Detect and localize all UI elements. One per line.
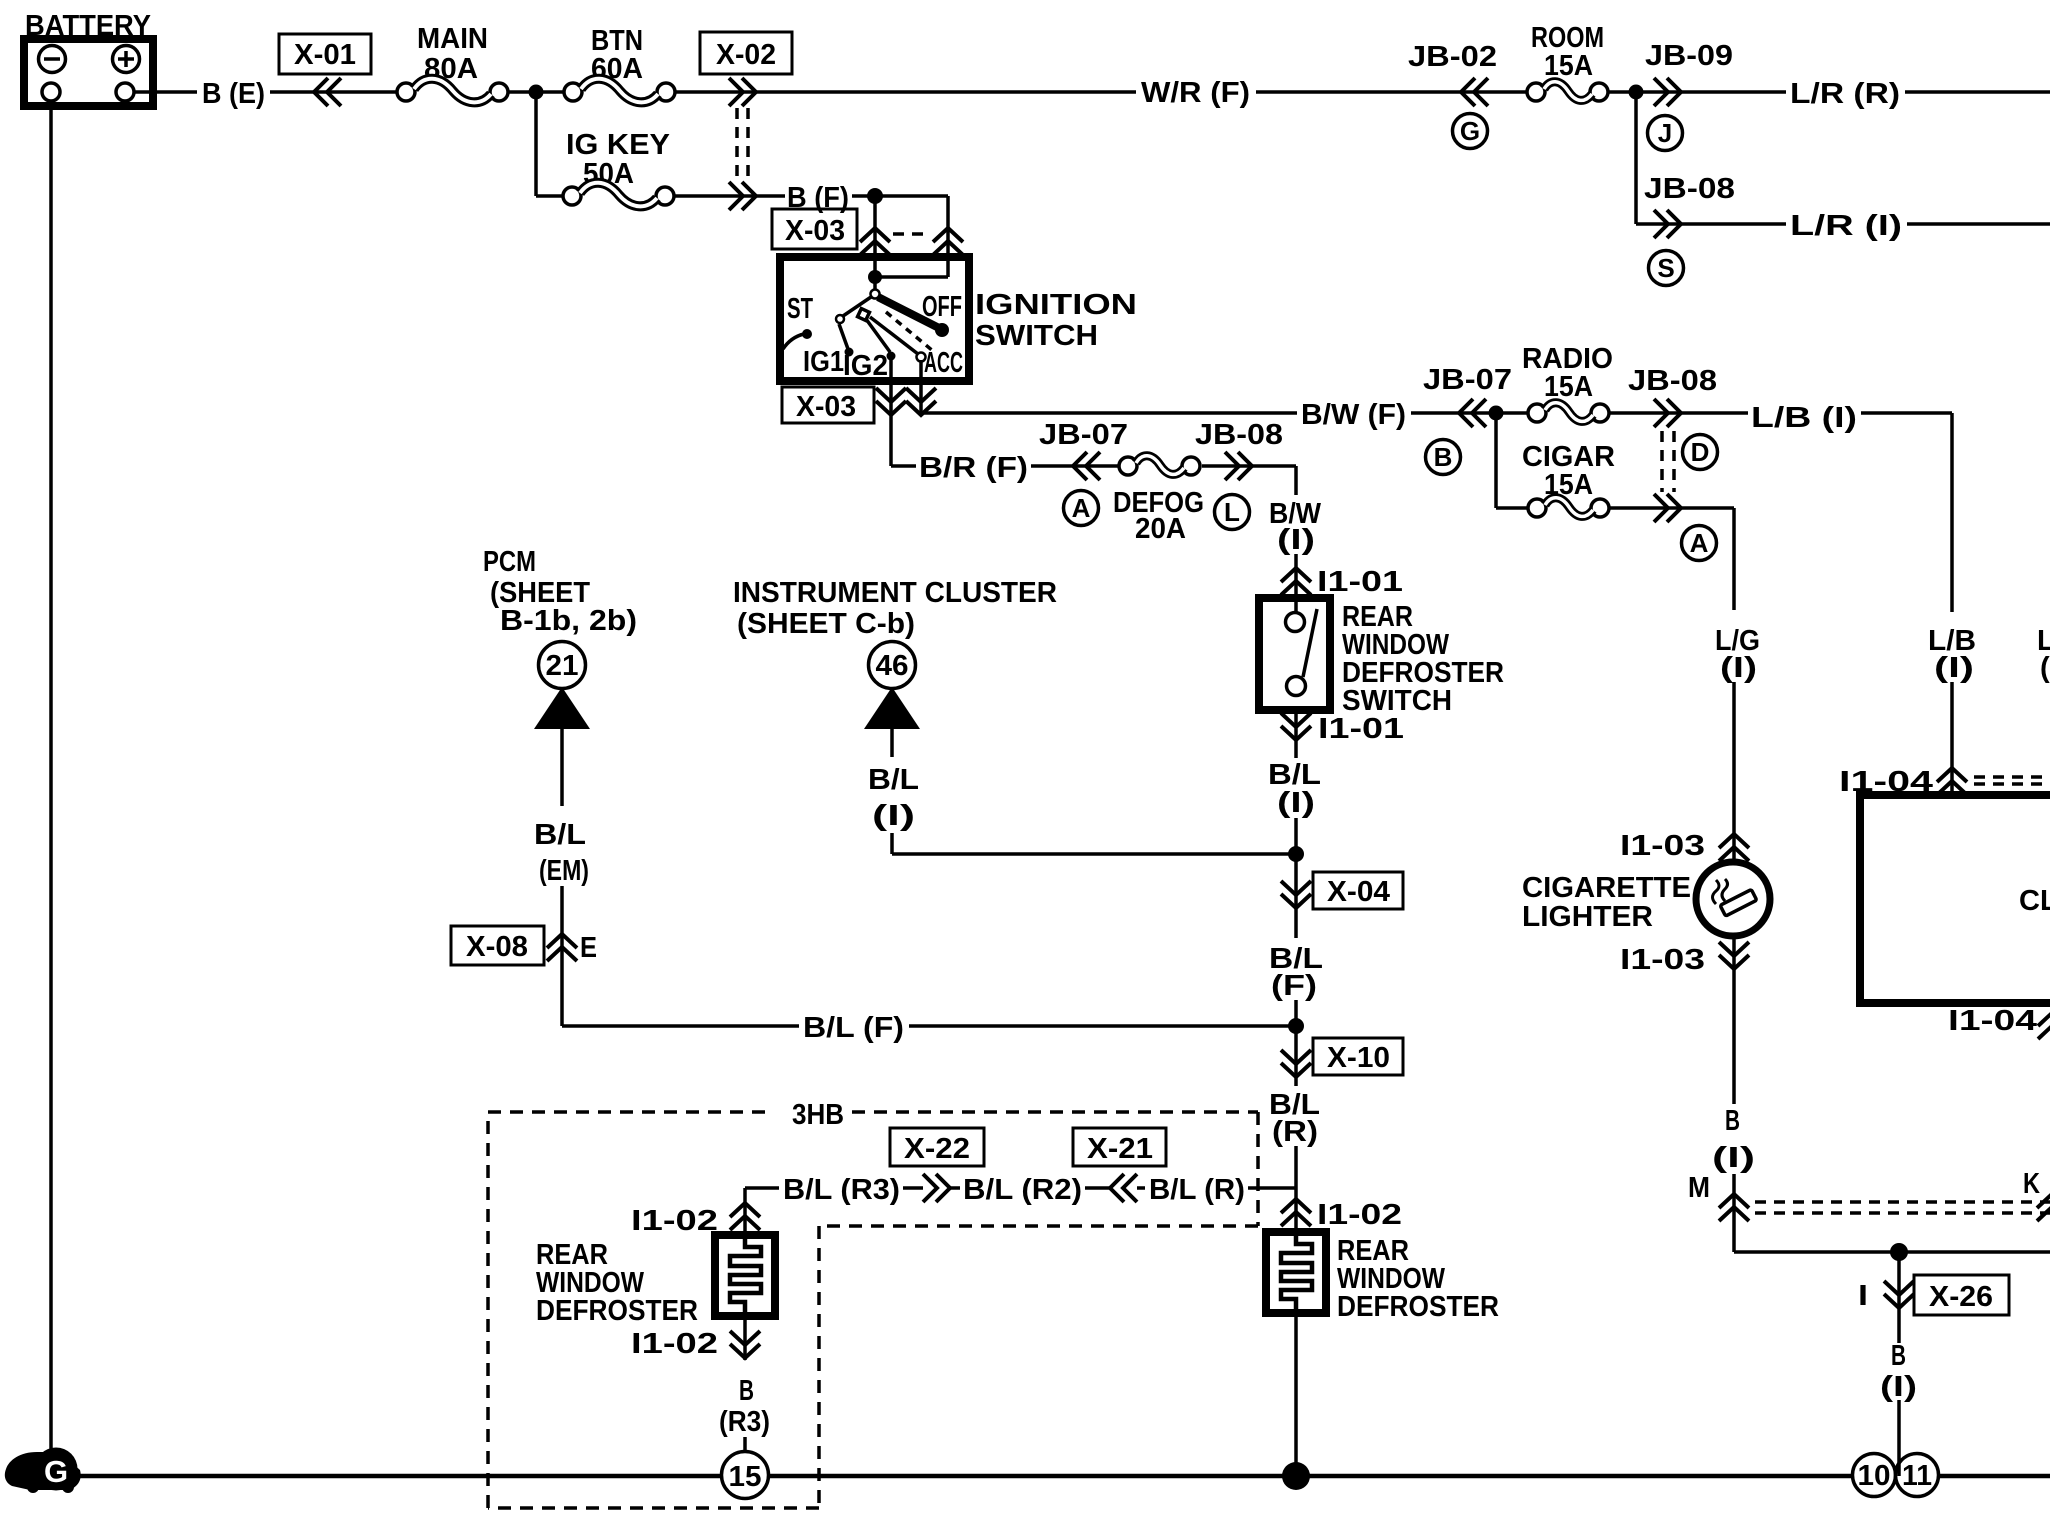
svg-text:I1-02: I1-02 (1317, 1199, 1402, 1231)
connector X-26 (1884, 1281, 1914, 1308)
svg-text:I1-01: I1-01 (1317, 566, 1403, 598)
node junction (1288, 846, 1304, 862)
ignition switch U1 (780, 257, 1137, 382)
svg-text:X-03: X-03 (785, 215, 845, 247)
svg-text:(I): (I) (1277, 524, 1315, 556)
connector I1-02 lower left (743, 1316, 747, 1360)
svg-text:IG KEY: IG KEY (566, 129, 670, 161)
svg-text:L: L (1224, 497, 1240, 527)
svg-text:A: A (1072, 493, 1091, 523)
svg-text:SWITCH: SWITCH (975, 320, 1098, 352)
svg-text:X-04: X-04 (1327, 876, 1390, 908)
connector I1-02 upper left (730, 1203, 760, 1230)
svg-text:X-01: X-01 (294, 39, 356, 71)
svg-text:J: J (1658, 118, 1672, 148)
svg-text:MAIN: MAIN (417, 23, 488, 55)
node junction (1629, 85, 1644, 100)
svg-text:K: K (2023, 1168, 2040, 1200)
svg-text:X-03: X-03 (796, 391, 856, 423)
svg-text:11: 11 (1902, 1460, 1932, 1492)
node 15 (722, 1452, 769, 1499)
svg-text:B: B (739, 1375, 754, 1407)
svg-text:10: 10 (1858, 1460, 1891, 1492)
svg-text:B-1b, 2b): B-1b, 2b) (500, 605, 637, 637)
svg-text:LIGHTER: LIGHTER (1522, 901, 1653, 933)
node junction bottom (1282, 1462, 1310, 1490)
svg-text:B/L (F): B/L (F) (803, 1012, 904, 1044)
wire L/G (I) down (1732, 508, 1736, 610)
wire ACC out (919, 360, 923, 413)
svg-text:E: E (580, 932, 597, 964)
svg-text:INSTRUMENT CLUSTER: INSTRUMENT CLUSTER (733, 577, 1057, 609)
wire down (1294, 1026, 1298, 1086)
svg-text:(SHEET C-b): (SHEET C-b) (737, 608, 915, 640)
rear window defroster right element (1266, 1232, 1499, 1323)
svg-text:21: 21 (546, 650, 579, 682)
svg-text:L/B (I): L/B (I) (1751, 402, 1857, 434)
wire (508, 90, 565, 94)
svg-text:JB-09: JB-09 (1645, 40, 1733, 72)
wire battery positive to B (E) (134, 90, 197, 94)
connector I1-02 upper right (1281, 1199, 1311, 1226)
node L (1215, 495, 1250, 530)
wire (1256, 90, 1527, 94)
battery (24, 10, 153, 106)
svg-text:X-26: X-26 (1929, 1281, 1993, 1313)
node B (1426, 440, 1461, 475)
svg-text:B/L: B/L (534, 819, 586, 851)
connector X-10 (1281, 1050, 1311, 1077)
fuse CIGAR 15A branch (1494, 413, 1498, 508)
arrow to PCM (534, 687, 590, 729)
svg-text:(R): (R) (1272, 1116, 1318, 1148)
wire L/R (I) branch (1634, 92, 1638, 224)
svg-text:15: 15 (729, 1461, 762, 1493)
svg-text:CLOCK: CLOCK (2019, 885, 2050, 917)
wire L/B (I) vertical to clock (1950, 413, 1954, 612)
svg-text:(EM): (EM) (539, 855, 589, 887)
node 11 (1896, 1454, 1939, 1497)
svg-text:15A: 15A (1544, 50, 1593, 82)
wire B/L (EM) (560, 729, 564, 806)
node A cigar (1682, 526, 1717, 561)
wire (674, 194, 785, 198)
svg-text:IG1: IG1 (803, 346, 844, 378)
wire B/L (R3) row (745, 1186, 779, 1190)
node 10 (1853, 1454, 1896, 1497)
svg-text:S: S (1657, 253, 1674, 283)
svg-text:(F): (F) (1271, 970, 1317, 1002)
svg-text:I1-03: I1-03 (1620, 830, 1705, 862)
svg-text:(I): (I) (2040, 652, 2050, 684)
connector I1-03 lower (1719, 942, 1749, 969)
svg-text:I: I (1858, 1280, 1868, 1312)
svg-text:B/L: B/L (868, 764, 919, 796)
battery negative wire (49, 101, 53, 1452)
svg-text:JB-08: JB-08 (1628, 365, 1717, 397)
svg-text:(I): (I) (872, 800, 915, 832)
svg-text:46: 46 (876, 650, 909, 682)
cigarette lighter (1522, 862, 1770, 936)
wire (270, 90, 397, 94)
node J (1648, 116, 1683, 151)
svg-text:3HB: 3HB (792, 1099, 844, 1131)
svg-text:I1-02: I1-02 (631, 1328, 718, 1360)
svg-text:JB-08: JB-08 (1644, 173, 1735, 205)
svg-text:B: B (1434, 442, 1453, 472)
connector X-21 (1073, 1128, 1166, 1166)
ground rail (60, 1474, 2050, 1479)
svg-text:X-02: X-02 (716, 39, 776, 71)
svg-text:X-08: X-08 (466, 931, 528, 963)
svg-text:DEFROSTER: DEFROSTER (536, 1295, 698, 1327)
svg-text:IG2: IG2 (843, 350, 888, 382)
svg-text:(I): (I) (1720, 652, 1757, 684)
svg-text:A: A (1690, 528, 1709, 558)
wire loop to ignition switch (875, 194, 948, 198)
svg-text:L/R (I): L/R (I) (1790, 210, 1902, 242)
svg-text:X-10: X-10 (1327, 1042, 1390, 1074)
svg-text:I1-03: I1-03 (1620, 944, 1705, 976)
svg-text:PCM: PCM (483, 546, 536, 578)
svg-text:B: B (1891, 1340, 1906, 1372)
arrow to cluster (864, 687, 920, 729)
svg-text:ACC: ACC (924, 347, 963, 379)
connector X-04 (1281, 881, 1311, 908)
svg-text:I1-04: I1-04 (1948, 1005, 2037, 1037)
wire down to B/W (I) (1294, 466, 1298, 495)
wire B/L (F) (562, 1024, 799, 1028)
connector X-22 (890, 1128, 984, 1166)
node junction (1288, 1018, 1304, 1034)
svg-text:(I): (I) (1277, 787, 1315, 819)
wire B/R (F) (891, 464, 916, 468)
connector I1-03 upper (1719, 834, 1749, 861)
svg-text:X-21: X-21 (1087, 1133, 1153, 1165)
svg-text:(I): (I) (1880, 1371, 1917, 1403)
node G (1453, 114, 1488, 149)
svg-text:G: G (1460, 116, 1480, 146)
node 21 (539, 642, 586, 689)
wire B/W (F) row (921, 411, 1297, 415)
svg-text:(I): (I) (1712, 1142, 1755, 1174)
rear window defroster switch (1259, 598, 1504, 717)
connector X-03 upper (772, 209, 857, 249)
3HB dashed harness box (488, 1099, 1258, 1508)
svg-text:G: G (44, 1454, 68, 1489)
node 46 (869, 642, 916, 689)
svg-text:JB-02: JB-02 (1408, 41, 1497, 73)
svg-text:20A: 20A (1135, 513, 1186, 545)
svg-text:B/R (F): B/R (F) (919, 452, 1028, 484)
ground G car symbol (5, 1448, 81, 1494)
clock box (1860, 795, 2050, 1003)
connector I1-01 lower (1294, 710, 1298, 758)
svg-text:W/R (F): W/R (F) (1141, 77, 1250, 109)
wire top rail (675, 90, 1136, 94)
connector X-02 (700, 32, 792, 74)
svg-text:X-22: X-22 (904, 1133, 970, 1165)
wire down (1294, 854, 1298, 938)
svg-text:(R3): (R3) (719, 1406, 770, 1438)
node junction (529, 85, 544, 100)
svg-text:CIGARETTE: CIGARETTE (1522, 872, 1691, 904)
node D (1683, 435, 1718, 470)
svg-text:I1-02: I1-02 (631, 1205, 718, 1237)
wire between 10 and 11 (1897, 1400, 1901, 1476)
connector X-01 (279, 34, 371, 74)
wire IG KEY branch (534, 92, 538, 196)
connector X-03 lower (782, 387, 874, 423)
svg-text:B/W (F): B/W (F) (1301, 399, 1406, 431)
wire to edge (1905, 90, 2050, 94)
node A (1064, 491, 1099, 526)
svg-text:D: D (1691, 437, 1710, 467)
node S (1649, 251, 1684, 286)
svg-text:B/L (R3): B/L (R3) (783, 1174, 900, 1206)
svg-text:B (E): B (E) (202, 78, 265, 110)
wire left element drop (743, 1188, 747, 1243)
svg-text:IGNITION: IGNITION (975, 289, 1137, 321)
svg-text:L/R (R): L/R (R) (1790, 78, 1900, 110)
svg-text:15A: 15A (1544, 371, 1593, 403)
svg-text:I1-01: I1-01 (1318, 713, 1404, 745)
wire (1608, 90, 1786, 94)
wire IG2 out (889, 358, 893, 466)
connector M (1719, 1194, 1749, 1221)
rear window defroster left element (536, 1235, 775, 1327)
connector I1-04 (1937, 768, 1967, 795)
svg-text:OFF: OFF (922, 291, 962, 323)
node junction (1489, 406, 1504, 421)
svg-text:M: M (1688, 1172, 1710, 1204)
connector I1-01 upper (1281, 568, 1311, 595)
svg-text:B: B (1725, 1105, 1740, 1137)
svg-text:DEFROSTER: DEFROSTER (1337, 1291, 1499, 1323)
svg-text:B/L (R2): B/L (R2) (963, 1174, 1082, 1206)
svg-text:ST: ST (787, 293, 813, 325)
svg-text:(I): (I) (1934, 652, 1974, 684)
svg-text:B/L (R): B/L (R) (1149, 1174, 1245, 1206)
svg-text:JB-07: JB-07 (1039, 419, 1128, 451)
connector X-08 (451, 926, 544, 965)
wire to bottom (1734, 1250, 2050, 1254)
wire B/L (I) cluster (890, 729, 894, 757)
svg-text:JB-07: JB-07 (1423, 364, 1512, 396)
svg-text:JB-08: JB-08 (1195, 419, 1283, 451)
